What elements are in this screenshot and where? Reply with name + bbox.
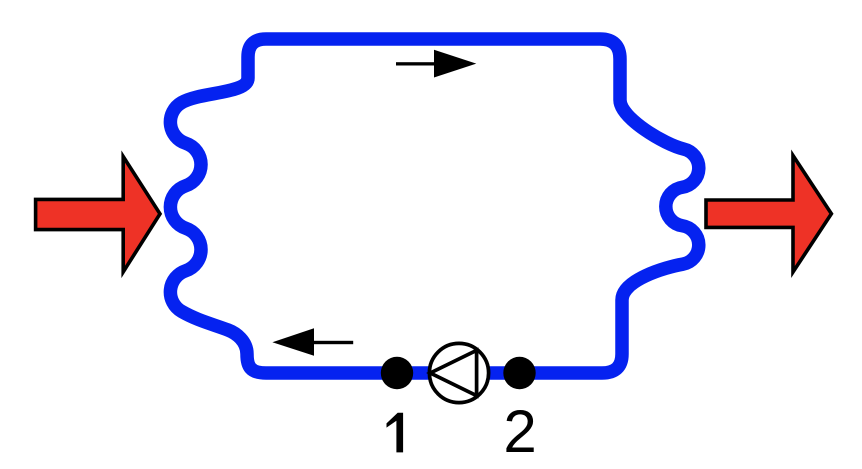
svg-text:2: 2 bbox=[503, 398, 536, 464]
